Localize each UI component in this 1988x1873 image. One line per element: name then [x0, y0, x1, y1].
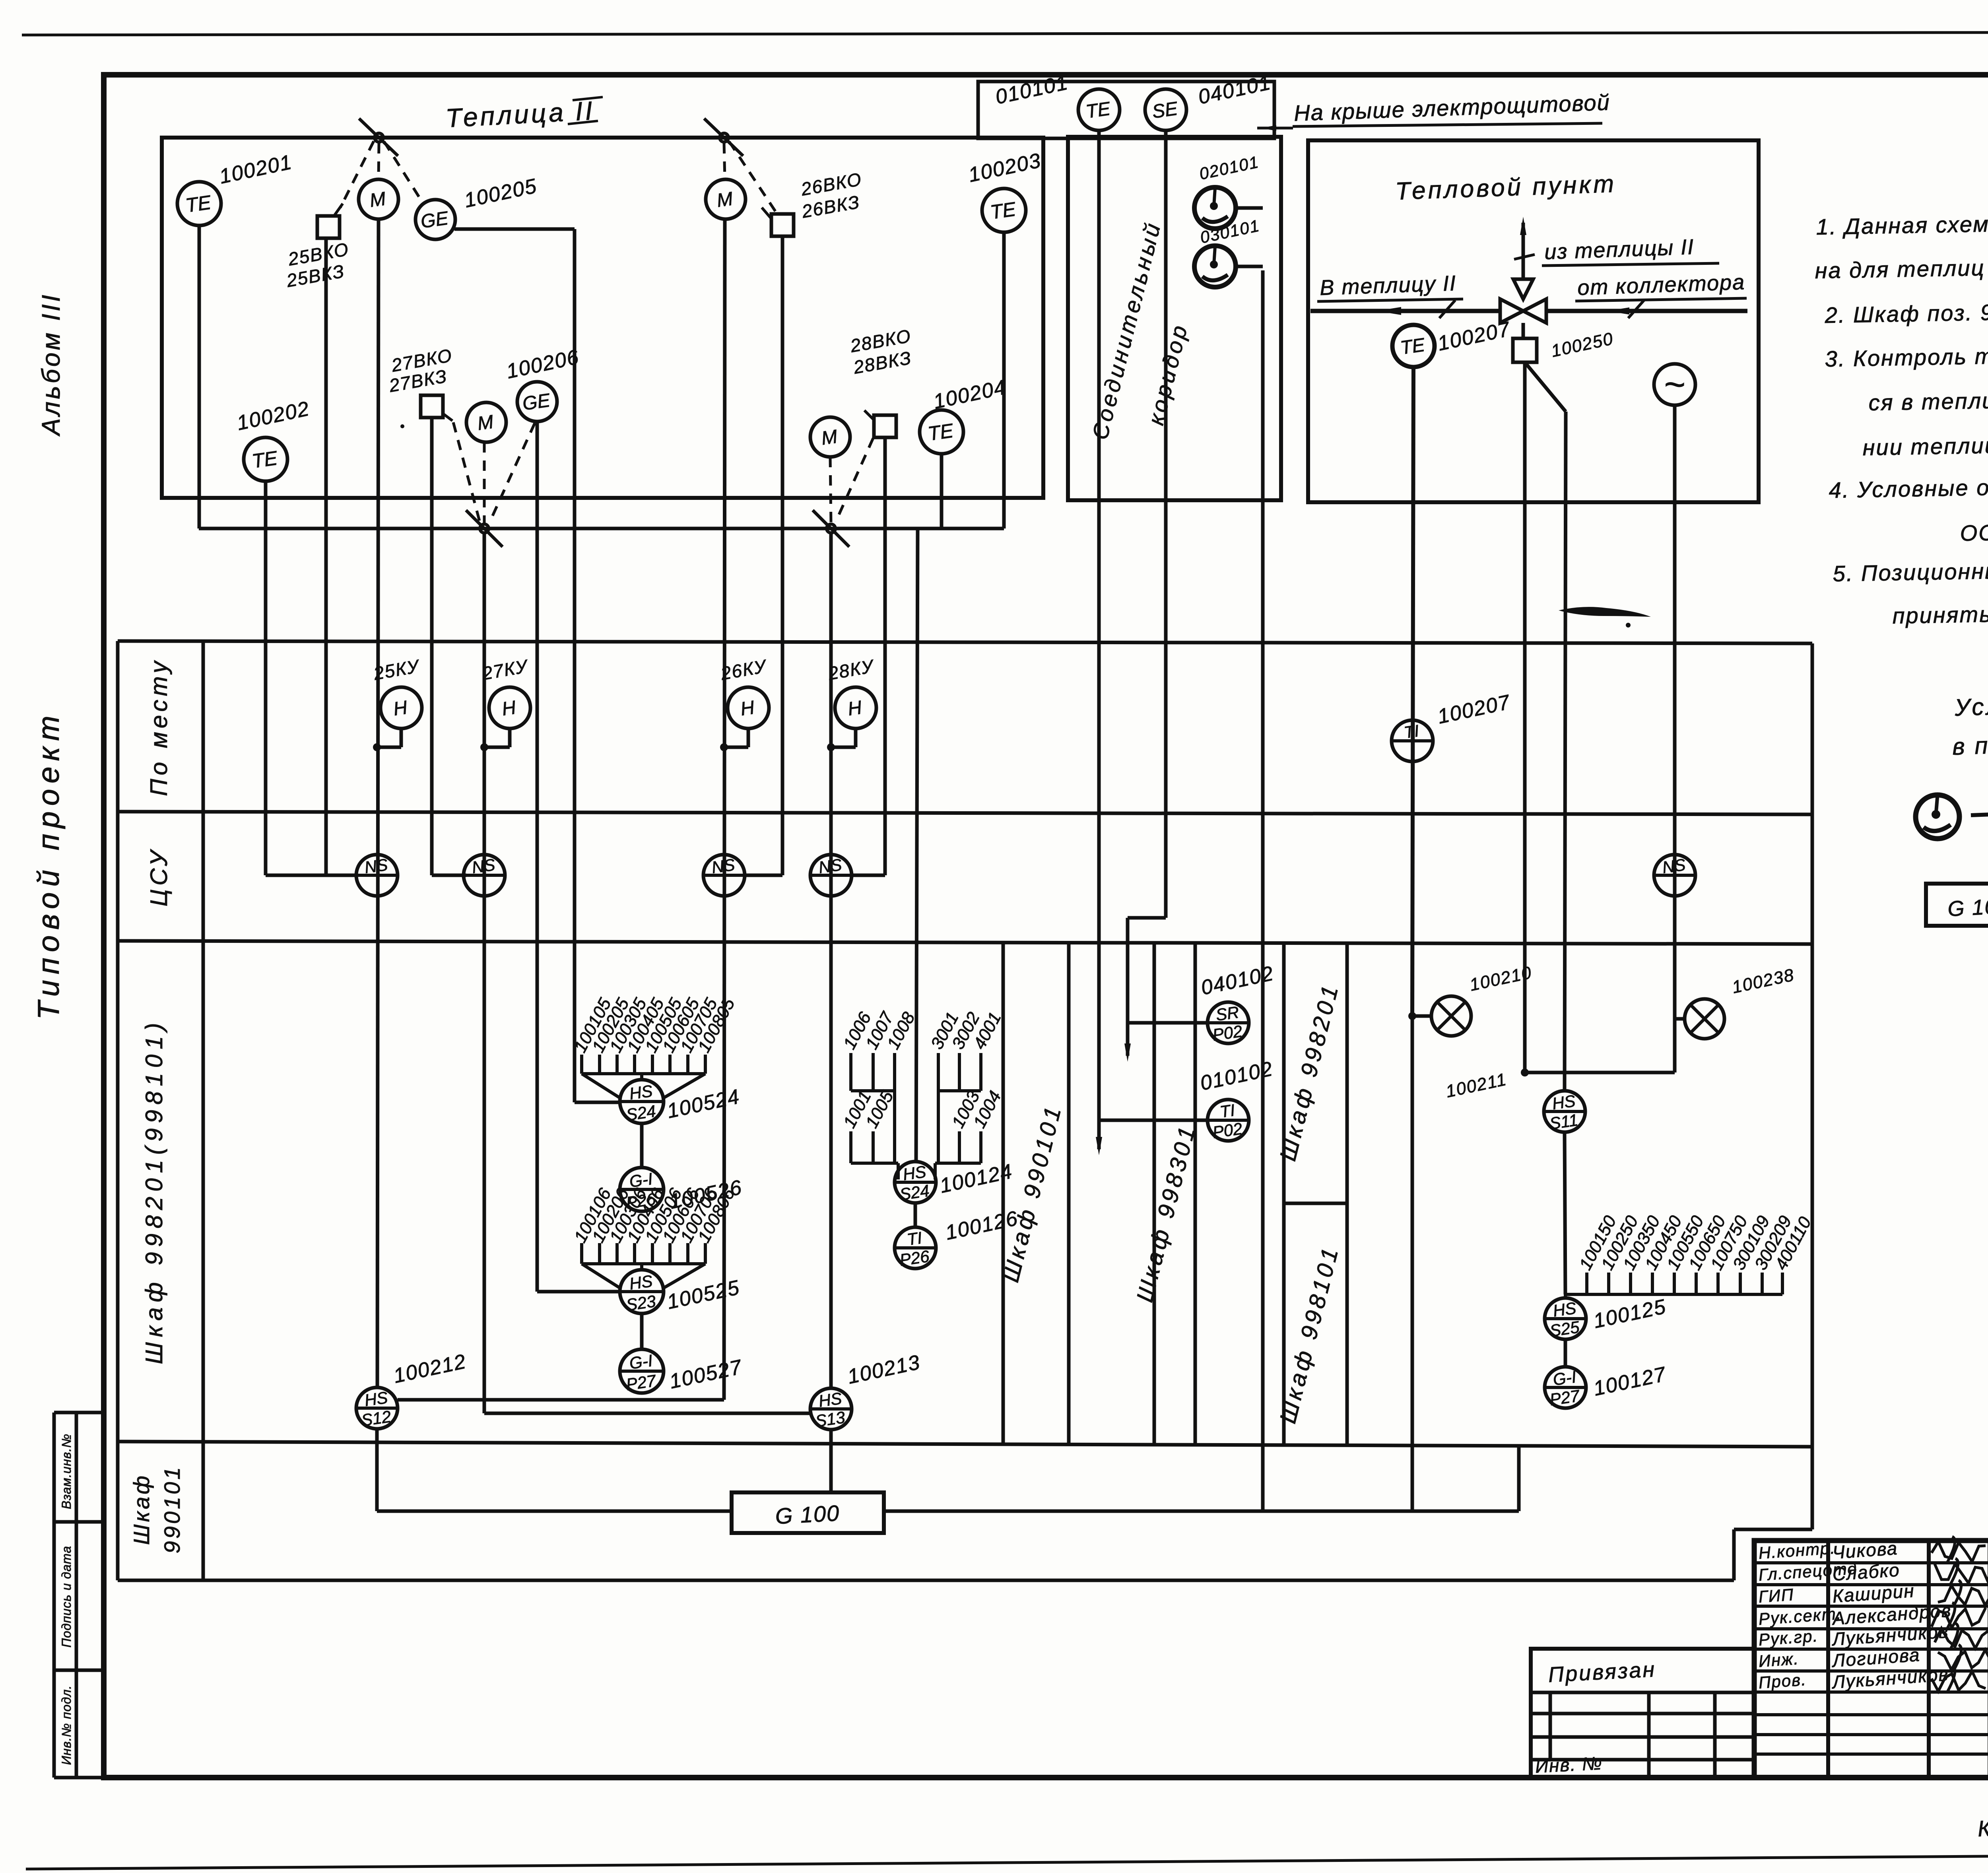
junction H line: [1525, 1071, 1675, 1074]
wire GE100205 right and down: [454, 227, 575, 231]
row divider ЦСУ / Шкаф 998201: [118, 941, 1812, 944]
instrument GE 100206: [517, 382, 557, 422]
contact block 27ВКО/27ВКЗ: [421, 395, 443, 418]
contact block 26ВКО/26ВКЗ: [771, 214, 794, 236]
collector A feed down to HS: [916, 528, 918, 1162]
svg-text:Типовой проект: Типовой проект: [32, 710, 66, 1020]
junction node 28 on collector: [827, 524, 835, 533]
legend G100 box: [1926, 884, 1988, 926]
svg-text:ГИП: ГИП: [1758, 1585, 1794, 1606]
svg-text:NS: NS: [711, 855, 736, 877]
svg-text:Взам.инв.№: Взам.инв.№: [59, 1434, 74, 1509]
svg-text:NS: NS: [817, 855, 843, 877]
local lamp H 25КУ: [381, 687, 422, 729]
fan of tag lines 100106-100806: [580, 1243, 583, 1264]
flow arrows: [1376, 307, 1401, 315]
row divider По месту / ЦСУ: [118, 812, 1812, 814]
instrument TE 100204: [920, 410, 963, 454]
instrument NS: [464, 855, 505, 896]
dashed link to GE100205: [384, 142, 422, 202]
svg-text:SЕ: SЕ: [1151, 98, 1179, 123]
wire HS S12 down to G100: [375, 1429, 379, 1511]
wire M3 down: [724, 219, 725, 1400]
wire TE100202 down: [264, 481, 268, 875]
valve positioner block 100250: [1513, 338, 1537, 362]
junction node 26 on top edge: [720, 133, 728, 142]
pipe line: [1310, 309, 1500, 313]
local lamp H 26КУ: [728, 687, 769, 729]
wire GE100206 down: [536, 422, 539, 1292]
svg-text:По месту: По месту: [146, 658, 172, 796]
svg-text:М: М: [476, 411, 495, 434]
svg-text:М: М: [368, 188, 387, 211]
wire M1 down: [377, 219, 379, 1387]
wire TI100207 down: [1411, 1016, 1414, 1511]
link: [640, 1313, 644, 1350]
wire TE010101 down: [1097, 130, 1101, 1120]
svg-text:GЕ: GЕ: [521, 390, 552, 414]
motor supply circle ~: [1654, 364, 1695, 405]
instrument TE 100201: [177, 182, 221, 225]
rows bottom edge: [118, 1579, 1734, 1582]
svg-text:ТI: ТI: [906, 1228, 923, 1249]
regulator G-I P26 100526: [620, 1168, 664, 1211]
indicator TI P26 100126: [895, 1227, 936, 1269]
legend light sensor symbol: [1916, 795, 1959, 839]
motor M 28: [810, 417, 850, 457]
svg-text:ОСТ 36 - 27 - 77.: ОСТ 36 - 27 - 77.: [1960, 517, 1988, 546]
light sensor 020101: [1194, 187, 1236, 229]
wire M4 down: [829, 533, 833, 1388]
motor M 25: [359, 179, 398, 219]
selector switch HS S24 100524: [620, 1080, 664, 1123]
link: [914, 1203, 917, 1227]
scan smudge artifact: [1559, 607, 1651, 617]
svg-text:~: ~: [1664, 364, 1686, 405]
svg-text:Инв.№ подл.: Инв.№ подл.: [59, 1685, 74, 1765]
link: [1564, 1339, 1567, 1367]
svg-text:SR: SR: [1215, 1003, 1240, 1024]
local lamp H 28КУ: [835, 687, 876, 729]
svg-text:Альбом III: Альбом III: [37, 292, 65, 437]
selector switch HS S23 100525: [620, 1270, 664, 1313]
selector switch HS S24 100124: [895, 1162, 936, 1203]
svg-text:НS: НS: [817, 1389, 843, 1411]
instrument TI 100207 local: [1392, 720, 1433, 762]
svg-text:Шкаф: Шкаф: [129, 1473, 154, 1545]
svg-text:ТЕ: ТЕ: [1399, 334, 1427, 359]
link: [640, 1123, 644, 1168]
svg-text:ТЕ: ТЕ: [184, 191, 213, 216]
instrument NS: [356, 855, 398, 896]
collector line A under greenhouse: [199, 527, 1004, 530]
stem with up arrow (из теплицы): [1522, 223, 1525, 279]
motor M 27: [466, 402, 506, 442]
svg-text:Инж.: Инж.: [1758, 1649, 1800, 1671]
svg-text:GЕ: GЕ: [419, 208, 450, 232]
wire SE040101 down: [1164, 130, 1168, 918]
svg-text:ТЕ: ТЕ: [1085, 98, 1112, 122]
light sensor 030101: [1194, 246, 1236, 287]
svg-text:990101: 990101: [159, 1465, 184, 1554]
instrument TE 100202: [244, 437, 287, 481]
greenhouse box Теплица II: [162, 138, 1043, 498]
fan of tag lines 100105-100805: [580, 1055, 583, 1074]
junction node 25 on top edge: [375, 133, 383, 142]
svg-text:Подпись и дата: Подпись и дата: [59, 1546, 74, 1648]
valve 3-way: [1500, 299, 1523, 323]
wire M3 into HS S12: [398, 1398, 724, 1402]
svg-text:ТЕ: ТЕ: [989, 198, 1017, 223]
corridor box Соединительный коридор: [1068, 137, 1281, 500]
wire into NS1 chord: [266, 874, 357, 877]
svg-text:М: М: [820, 426, 839, 449]
svg-text:Пров.: Пров.: [1758, 1670, 1807, 1692]
instrument GE 100205: [415, 200, 455, 239]
sensor connect wires: [1236, 206, 1263, 210]
wire TE100204 down: [940, 454, 944, 528]
diagonal branch: [1525, 362, 1566, 412]
svg-text:G 100: G 100: [775, 1500, 841, 1529]
row divider Шкаф 998201 / Шкаф 990101: [118, 1442, 1812, 1447]
selector switch HS S11 100211: [1544, 1091, 1585, 1132]
regulator SR P02 040102: [1208, 1002, 1249, 1043]
svg-text:S11: S11: [1548, 1110, 1579, 1133]
wire TE100201 down: [198, 225, 201, 528]
sheet bottom edge line: [26, 1852, 1988, 1869]
svg-text:NS: NS: [363, 855, 389, 877]
instrument TE 100207: [1392, 325, 1435, 367]
svg-text:НS: НS: [1552, 1298, 1577, 1320]
selector switch HS S13 100213: [810, 1388, 852, 1430]
svg-text:НS: НS: [628, 1271, 654, 1293]
left stamp boxes: [52, 1413, 56, 1778]
svg-text:NS: NS: [471, 855, 496, 877]
title block: [1754, 1541, 1988, 1778]
indicator TI P02 010102: [1208, 1100, 1249, 1141]
selector switch HS S12 100212: [356, 1387, 398, 1429]
svg-text:нии теплицы III.: нии теплицы III.: [1862, 432, 1988, 460]
instrument NS: [703, 855, 745, 896]
sheet top edge line: [22, 32, 1988, 35]
svg-text:G-I: G-I: [1552, 1367, 1578, 1389]
instrument SE 040101: [1145, 89, 1186, 130]
wire TE100203 down: [1002, 232, 1006, 528]
svg-text:G 100: G 100: [1947, 894, 1988, 921]
fan of tag lines 1001..4001: [849, 1053, 852, 1091]
svg-text:G-I: G-I: [628, 1351, 654, 1373]
svg-text:ТЕ: ТЕ: [926, 419, 955, 445]
lamp 100210: [1431, 996, 1471, 1036]
fan of tag lines 100150..400110: [1585, 1273, 1588, 1294]
wire 28ВКО down: [883, 437, 887, 875]
wire 26ВКО down: [781, 236, 784, 875]
svg-text:ТI: ТI: [1219, 1101, 1236, 1121]
wire 25ВКО down: [324, 238, 328, 875]
heat point box Тепловой пункт: [1308, 140, 1759, 502]
binding box Привязан: [1531, 1649, 1754, 1778]
svg-text:ЦСУ: ЦСУ: [146, 847, 172, 907]
svg-text:в проекте:: в проекте:: [1952, 729, 1988, 760]
wire 020101/030101 down: [1261, 270, 1265, 1511]
dashed links j27: [483, 442, 486, 523]
svg-text:Инв. №: Инв. №: [1535, 1753, 1603, 1777]
rows right step: [1732, 1529, 1736, 1580]
svg-text:НS: НS: [1551, 1091, 1576, 1113]
wire HS S11 down: [1565, 1132, 1565, 1294]
dashed link to 25ВКО: [340, 141, 374, 208]
svg-text:НS: НS: [363, 1388, 389, 1410]
svg-text:НS: НS: [902, 1162, 927, 1184]
regulator unit G100: [732, 1492, 884, 1533]
instrument TE 010101: [1078, 89, 1120, 130]
svg-text:М: М: [715, 188, 734, 211]
cabinet strip Шкаф 998301: [1153, 942, 1156, 1444]
wire ~ down: [1673, 405, 1677, 1073]
instrument NS: [810, 855, 852, 896]
wire HS S13 down to G100: [829, 1430, 833, 1492]
contact block 25ВКО/25ВКЗ: [317, 216, 340, 238]
svg-text:Шкаф 998201(998101): Шкаф 998201(998101): [141, 1018, 167, 1364]
wire TE100207 down: [1412, 367, 1413, 1016]
svg-text:НS: НS: [628, 1081, 654, 1103]
cabinet strip Шкаф 990101: [1002, 942, 1005, 1444]
local lamp H 27КУ: [489, 687, 530, 729]
instrument NS: [1654, 855, 1695, 896]
rooftop box: [978, 82, 1274, 138]
contact block 28ВКО/28ВКЗ: [874, 415, 896, 437]
G100 output line: [884, 1510, 1519, 1513]
wire 27ВКО down: [430, 418, 434, 875]
lamp 100238: [1685, 999, 1724, 1039]
svg-text:В теплицу II: В теплицу II: [1319, 271, 1457, 300]
leader to caption: [1257, 127, 1293, 130]
junction node 27 on collector: [480, 524, 489, 533]
regulator G-I P27 100527: [620, 1349, 664, 1393]
dashed link to motor M1: [379, 143, 379, 179]
selector switch HS S25 100125: [1545, 1298, 1586, 1339]
regulator G-I P27 100127: [1545, 1367, 1586, 1408]
rows table frame: [118, 641, 1812, 643]
cabinet box Шкаф 998201 / 998101: [1282, 942, 1286, 1444]
motor M 26: [706, 179, 745, 219]
svg-text:ТЕ: ТЕ: [250, 447, 279, 472]
wire 100250 down: [1523, 362, 1527, 1073]
wire M2 down: [483, 533, 486, 1413]
instrument TE 100203: [982, 188, 1026, 232]
